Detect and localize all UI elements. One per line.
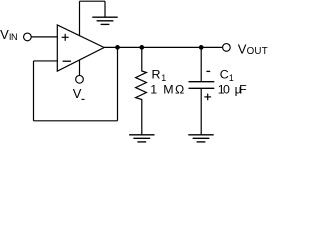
minus input sign bbox=[63, 60, 71, 62]
wire output bbox=[104, 46, 223, 48]
capacitor C1 plus sign bbox=[204, 94, 211, 101]
svg-text:Ω: Ω bbox=[175, 83, 184, 97]
label R1 value bbox=[150, 83, 184, 97]
ground top bbox=[92, 17, 117, 24]
label R1 bbox=[152, 68, 167, 83]
ground R1 bbox=[129, 135, 154, 142]
junction node R1 bbox=[139, 45, 144, 50]
label VOUT bbox=[238, 42, 268, 57]
svg-text:IN: IN bbox=[9, 32, 17, 42]
svg-text:1: 1 bbox=[150, 83, 157, 97]
wire top horizontal bbox=[80, 0, 106, 2]
label VIN bbox=[0, 27, 17, 42]
terminal VIN bbox=[24, 33, 32, 41]
svg-text:V: V bbox=[0, 27, 9, 42]
svg-text:1: 1 bbox=[161, 73, 166, 83]
wire noninverting input bbox=[31, 36, 58, 38]
svg-text:0: 0 bbox=[223, 83, 230, 97]
svg-text:R: R bbox=[152, 68, 161, 82]
label V- bbox=[73, 86, 85, 101]
terminal VOUT bbox=[223, 44, 231, 52]
wire V+ supply stub bbox=[79, 1, 81, 36]
wire ground stub top bbox=[104, 1, 106, 17]
op-amp U1 bbox=[57, 25, 104, 71]
capacitor C1 minus sign bbox=[206, 70, 210, 72]
wire V- supply stub bbox=[79, 60, 81, 76]
plus input sign bbox=[62, 34, 69, 41]
wire inverting input bbox=[34, 60, 58, 62]
svg-text:V: V bbox=[73, 86, 82, 101]
svg-text:OUT: OUT bbox=[247, 46, 268, 57]
svg-text:C: C bbox=[220, 68, 229, 82]
wire feedback bottom bbox=[34, 120, 118, 122]
junction node feedback bbox=[115, 45, 120, 50]
svg-text:M: M bbox=[163, 83, 173, 97]
resistor R1 bbox=[136, 47, 147, 134]
svg-text:1: 1 bbox=[229, 73, 234, 83]
wire feedback right vertical bbox=[117, 47, 119, 120]
label C1 bbox=[220, 68, 234, 83]
wire feedback left vertical bbox=[33, 61, 35, 121]
ground C1 bbox=[188, 135, 213, 142]
svg-text:V: V bbox=[238, 42, 247, 57]
terminal V- bbox=[76, 75, 84, 83]
svg-text:F: F bbox=[239, 83, 247, 97]
label C1 value bbox=[218, 83, 247, 97]
junction node C1 bbox=[199, 45, 204, 50]
capacitor C1 bbox=[189, 47, 215, 134]
